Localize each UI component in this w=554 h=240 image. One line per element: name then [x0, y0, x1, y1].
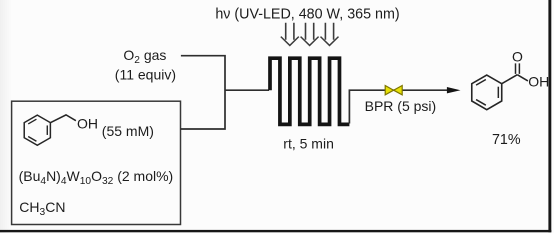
svg-text:(11 equiv): (11 equiv) — [115, 67, 176, 83]
svg-text:BPR (5 psi): BPR (5 psi) — [365, 98, 437, 114]
svg-text:(55 mM): (55 mM) — [102, 123, 154, 139]
svg-text:OH: OH — [528, 73, 549, 89]
svg-text:rt, 5 min: rt, 5 min — [283, 136, 334, 152]
svg-text:O: O — [512, 48, 523, 64]
svg-text:hν (UV-LED, 480 W, 365 nm): hν (UV-LED, 480 W, 365 nm) — [215, 7, 399, 23]
svg-text:71%: 71% — [492, 132, 521, 148]
svg-text:OH: OH — [77, 116, 98, 132]
